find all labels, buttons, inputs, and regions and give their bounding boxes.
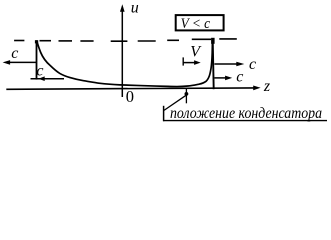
leader line to callout: [164, 95, 186, 110]
right pulse top knob: [211, 38, 215, 44]
left pulse top knob: [35, 40, 38, 43]
u axis arrowhead: [120, 4, 125, 12]
svg-text:z: z: [263, 78, 271, 95]
svg-text:u: u: [131, 0, 139, 17]
left arrow c (lower): [31, 78, 65, 80]
svg-text:V < c: V < c: [181, 16, 211, 32]
svg-text:0: 0: [126, 87, 134, 106]
right pulse rear edge (vertical spike): [213, 39, 214, 89]
wave curve from left pulse to right pulse: [37, 42, 213, 87]
left pulse front edge (vertical spike): [36, 40, 38, 79]
dashed asymptote line u=max: [14, 39, 237, 41]
V arrow start bar: [182, 57, 184, 65]
right arrow c (upper): [214, 63, 238, 65]
V < c box: [176, 15, 224, 30]
V arrow: [183, 62, 195, 64]
svg-text:положение конденсатора: положение конденсатора: [170, 105, 322, 122]
capacitor position dot: [185, 92, 189, 96]
z axis (horizontal): [6, 88, 254, 89]
svg-text:c: c: [236, 68, 243, 85]
svg-text:c: c: [249, 56, 256, 73]
svg-text:c: c: [36, 62, 43, 79]
callout underline: [163, 120, 327, 122]
z axis arrowhead: [253, 86, 260, 91]
capacitor position tick below axis: [185, 89, 187, 104]
svg-text:c: c: [11, 45, 18, 62]
callout left bar: [163, 106, 165, 121]
right arrow c (lower): [214, 77, 226, 79]
left arrow c (upper): [8, 61, 36, 63]
u axis (vertical): [121, 7, 123, 97]
